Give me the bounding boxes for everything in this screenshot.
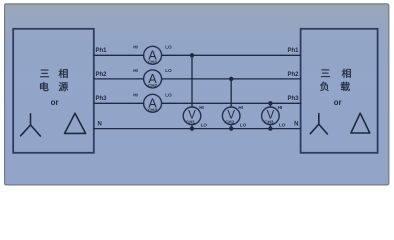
label N right xyxy=(294,122,298,128)
source wye symbol xyxy=(21,114,41,136)
label HI ammeter CH1 xyxy=(133,45,138,50)
svg-text:CH3: CH3 xyxy=(264,120,274,125)
three-phase load box xyxy=(301,29,378,153)
label LO voltmeter CH3 xyxy=(279,123,286,128)
wire Ph3 right segment xyxy=(162,102,301,104)
node Ph2-V2 junction xyxy=(229,77,233,81)
label HI voltmeter CH3 xyxy=(278,105,283,110)
svg-text:LO: LO xyxy=(165,92,172,97)
ammeter CH3 xyxy=(144,94,162,112)
load "or" xyxy=(334,98,342,107)
label N left xyxy=(98,122,102,128)
svg-text:HI: HI xyxy=(199,105,204,110)
svg-text:N: N xyxy=(294,122,298,128)
label Ph3 right xyxy=(287,96,299,102)
label Ph1 right xyxy=(287,48,299,54)
three-phase source box xyxy=(13,29,94,153)
svg-text:or: or xyxy=(51,98,59,107)
svg-text:Ph3: Ph3 xyxy=(96,96,108,102)
source label 三相 xyxy=(40,69,67,78)
node Ph1 tap wire xyxy=(191,55,193,107)
label Ph2 left xyxy=(96,72,108,78)
wire Ph1 right segment xyxy=(162,54,301,56)
label LO ammeter CH1 xyxy=(165,44,172,49)
wire Ph3 left segment xyxy=(94,102,144,104)
svg-text:LO: LO xyxy=(201,123,208,128)
panel background xyxy=(5,4,389,185)
svg-text:HI: HI xyxy=(278,105,283,110)
svg-text:Ph1: Ph1 xyxy=(96,48,108,54)
svg-text:Ph3: Ph3 xyxy=(287,96,299,102)
wire Ph2 left segment xyxy=(94,78,144,80)
label LO voltmeter CH2 xyxy=(240,123,247,128)
ammeter CH2 xyxy=(144,70,162,88)
svg-text:CH1: CH1 xyxy=(148,59,158,64)
voltmeter V2 bottom wire xyxy=(230,124,232,128)
voltmeter CH1 xyxy=(183,107,201,125)
svg-text:HI: HI xyxy=(133,93,138,98)
svg-text:CH2: CH2 xyxy=(225,120,235,125)
svg-text:CH2: CH2 xyxy=(148,83,158,88)
svg-text:N: N xyxy=(98,122,102,128)
node N-V2 junction xyxy=(229,126,233,130)
voltmeter V3 bottom wire xyxy=(269,124,271,128)
node N-V3 junction xyxy=(268,126,272,130)
svg-text:LO: LO xyxy=(279,123,286,128)
load wye symbol xyxy=(310,114,327,135)
voltmeter CH3 xyxy=(262,107,280,125)
source label 电源 xyxy=(40,82,68,91)
svg-text:HI: HI xyxy=(238,105,243,110)
label LO ammeter CH2 xyxy=(165,68,172,73)
label Ph3 left xyxy=(96,96,108,102)
node Ph2 tap wire xyxy=(230,79,232,107)
label LO voltmeter CH1 xyxy=(201,123,208,128)
node Ph1-V1 junction xyxy=(190,53,194,57)
load delta symbol xyxy=(351,113,370,133)
node Ph3-V3 junction xyxy=(268,101,272,105)
label HI voltmeter CH2 xyxy=(238,105,243,110)
node N-V1 junction xyxy=(190,126,194,130)
node Ph3 tap wire xyxy=(269,103,271,107)
svg-text:LO: LO xyxy=(240,123,247,128)
svg-text:LO: LO xyxy=(165,68,172,73)
svg-text:HI: HI xyxy=(133,45,138,50)
svg-text:CH3: CH3 xyxy=(148,107,158,112)
svg-text:Ph2: Ph2 xyxy=(96,72,108,78)
source delta symbol xyxy=(65,113,86,133)
svg-text:HI: HI xyxy=(133,68,138,73)
wire Ph1 left segment xyxy=(94,54,144,56)
svg-text:LO: LO xyxy=(165,44,172,49)
label HI ammeter CH3 xyxy=(133,93,138,98)
label Ph2 right xyxy=(287,72,299,78)
voltmeter V1 bottom wire xyxy=(191,124,193,128)
load label 负载 xyxy=(320,82,350,91)
label Ph1 left xyxy=(96,48,108,54)
svg-text:CH1: CH1 xyxy=(186,120,196,125)
load label 三相 xyxy=(321,69,351,78)
label LO ammeter CH3 xyxy=(165,92,172,97)
svg-text:Ph1: Ph1 xyxy=(287,48,299,54)
voltmeter CH2 xyxy=(222,107,240,125)
label HI voltmeter CH1 xyxy=(199,105,204,110)
wire Ph2 right segment xyxy=(162,78,301,80)
ammeter CH1 xyxy=(144,46,162,64)
svg-text:Ph2: Ph2 xyxy=(287,72,299,78)
wire N xyxy=(94,128,301,130)
svg-text:or: or xyxy=(334,98,342,107)
source "or" xyxy=(51,98,59,107)
label HI ammeter CH2 xyxy=(133,68,138,73)
